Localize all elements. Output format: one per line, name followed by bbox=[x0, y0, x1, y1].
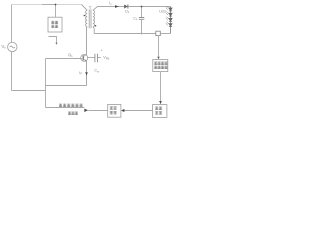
svg-text:Cm: Cm bbox=[94, 69, 99, 74]
LED string bbox=[169, 7, 172, 34]
transformer polarity dot secondary bbox=[95, 25, 97, 27]
wire primary bottom lead bbox=[86, 27, 89, 55]
wire source top bbox=[11, 5, 13, 43]
svg-text:IP: IP bbox=[79, 71, 82, 76]
diode D1 bbox=[124, 5, 127, 9]
wire secondary bottom lead bbox=[93, 27, 94, 34]
capacitor Cm bbox=[87, 57, 95, 59]
svg-text:+: + bbox=[100, 48, 103, 52]
startup block bbox=[48, 17, 62, 32]
arrow Is bbox=[115, 5, 119, 8]
transformer T1 bbox=[82, 5, 98, 55]
svg-text:D1: D1 bbox=[125, 9, 130, 14]
transistor Q1 bbox=[81, 54, 88, 61]
wire drive-sense right bbox=[88, 110, 107, 112]
wire startup output bbox=[49, 37, 57, 43]
transformer core bbox=[89, 10, 91, 29]
wire primary current bbox=[86, 27, 88, 55]
wire regulator to pwm bbox=[124, 110, 152, 112]
wire output rail right bbox=[128, 6, 170, 8]
capacitor Co bbox=[141, 7, 143, 18]
node startup tap bbox=[55, 5, 57, 18]
svg-text:Q1: Q1 bbox=[68, 52, 73, 58]
wire secondary return rail bbox=[94, 33, 156, 35]
wire source bottom bbox=[11, 52, 13, 91]
label startup text bbox=[51, 21, 58, 28]
svg-text:LED: LED bbox=[159, 10, 166, 14]
wire source return bbox=[12, 90, 46, 92]
svg-text:Is: Is bbox=[109, 1, 112, 6]
svg-text:Vs: Vs bbox=[2, 44, 7, 50]
svg-text:T: T bbox=[89, 5, 92, 10]
label wire text line2 bbox=[68, 112, 78, 115]
transformer secondary winding bbox=[93, 10, 95, 26]
wire sense tap bbox=[158, 36, 160, 57]
wire drive-sense left bbox=[46, 107, 85, 109]
sense square bbox=[156, 31, 161, 35]
wire emitter return bbox=[46, 61, 87, 85]
wire primary top lead bbox=[82, 5, 88, 11]
label wire text line1 bbox=[59, 104, 83, 107]
wire emitter down bbox=[86, 61, 88, 85]
wire sampling to regulator bbox=[160, 72, 162, 102]
wire top rail bbox=[12, 4, 43, 6]
wire secondary top lead bbox=[93, 7, 98, 11]
arrow Ip bbox=[85, 72, 88, 75]
wire output rail left bbox=[98, 6, 125, 8]
pwm block bbox=[108, 104, 121, 117]
svg-text:VFB: VFB bbox=[103, 56, 109, 61]
svg-text:Co: Co bbox=[133, 16, 138, 21]
LED emission arrows bbox=[166, 6, 169, 25]
wire control vertical bbox=[45, 59, 47, 108]
wire gate line bbox=[46, 58, 83, 60]
transformer polarity dot primary bbox=[84, 15, 86, 17]
source Vs bbox=[8, 42, 17, 51]
transformer primary winding bbox=[86, 10, 88, 26]
regulator block bbox=[153, 105, 167, 118]
sampling block bbox=[153, 60, 168, 72]
arrow drive-sense bbox=[84, 109, 88, 112]
